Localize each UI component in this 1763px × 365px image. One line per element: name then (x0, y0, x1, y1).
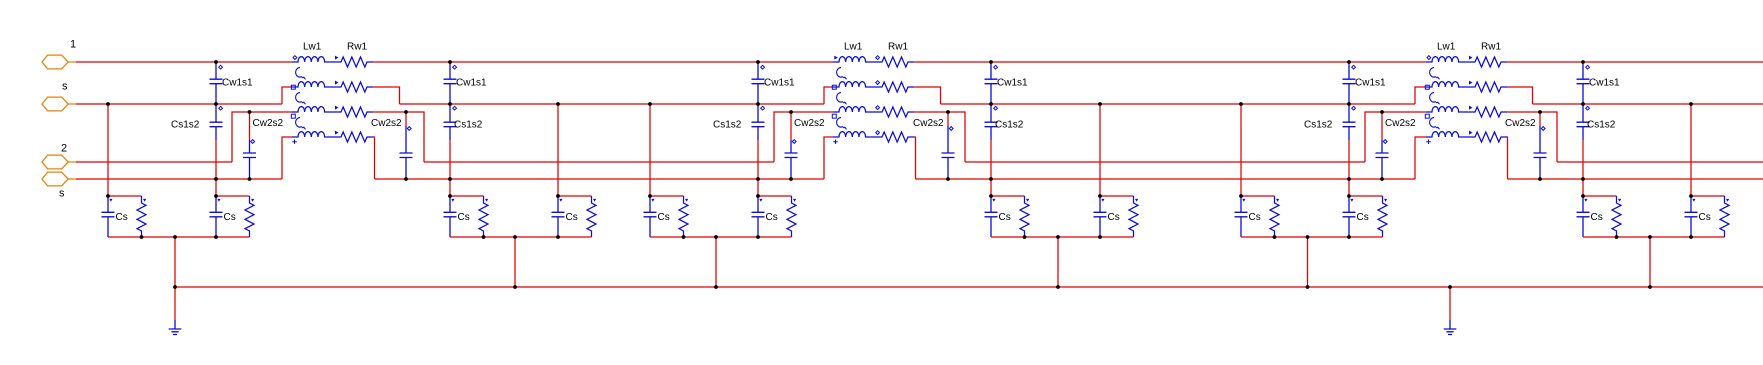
svg-text:Cw1s1: Cw1s1 (222, 78, 253, 89)
polarity marker row3 of block T3 (1425, 114, 1429, 118)
wire net 2 from block 3 to right edge (1557, 161, 1763, 163)
svg-text:Cs1s2: Cs1s2 (713, 120, 742, 131)
wire ground tap at x=1650 (1649, 237, 1651, 287)
shunt RC block Cs at x=1241 (1235, 196, 1280, 237)
shunt RC block Cs at x=450 (444, 196, 489, 237)
wire Cs bottom rail x=108-249.5 (108, 236, 250, 238)
coupling arc between rows 2 and 3 of block T2 (837, 93, 847, 105)
polarity marker row4 of block T3 (1426, 140, 1431, 145)
wire winding row4 right down to net s2, block 3 (1506, 137, 1509, 179)
svg-text:Cs: Cs (1249, 212, 1261, 223)
wire riser net s1 to winding row2 left, block 3 (1415, 87, 1426, 104)
port P1 (net 1) (42, 55, 76, 69)
capacitor Cs1s2 at x=758 (752, 104, 765, 140)
wire net s2 from port Ps2 to riser at block 1 (76, 178, 282, 180)
shunt RC block Cs at x=1100 (1094, 196, 1139, 237)
polarity marker row4 of block T1 (292, 140, 297, 145)
wire winding row2 right down to net s1, block 1 (373, 87, 400, 104)
svg-text:Rw1: Rw1 (347, 42, 367, 53)
ground symbol at x=175 (169, 287, 182, 335)
polarity marker row3 of block T1 (291, 114, 295, 118)
shunt RC block Cs at x=758 (752, 196, 797, 237)
capacitor Cw2s2 at x=948 (942, 112, 955, 179)
wire Cs1s2 bottom lead to net s2 at x=991 (990, 140, 992, 179)
wire riser net s1 to winding row2 left, block 2 (824, 87, 833, 104)
shunt RC block Cs at x=1349 (1343, 196, 1388, 237)
wire Cs bottom rail x=650-791.5 (650, 236, 792, 238)
wire net s1 down to Cs block at x=108 (107, 104, 109, 196)
svg-text:Cw1s1: Cw1s1 (764, 78, 795, 89)
winding Lw1+Rw1 row 2 of block T1 (292, 81, 373, 92)
wire Cs bottom rail x=1583-1724.5 (1583, 236, 1725, 238)
wire winding row2 right down to net s1, block 3 (1507, 87, 1533, 104)
wire winding row4 right down to net s2, block 2 (914, 137, 916, 179)
coupling arc between rows 3 and 4 of block T3 (1430, 118, 1440, 130)
shunt RC block Cs at x=216 (210, 196, 255, 237)
polarity marker row2 of block T2 (832, 85, 836, 89)
svg-text:1: 1 (70, 39, 76, 51)
junction dots on net s2 (214, 177, 1585, 181)
wire riser net s1 to winding row2 left, block 1 (282, 87, 292, 104)
svg-text:s: s (59, 188, 65, 200)
ground symbol at x=1450 (1444, 287, 1457, 335)
wire net s2 between blocks 1 and 2 (375, 178, 825, 180)
svg-text:Cs: Cs (1699, 212, 1711, 223)
polarity marker row3 of block T2 (832, 114, 836, 118)
svg-text:Cw2s2: Cw2s2 (1505, 118, 1536, 129)
capacitor Cs1s2 at x=450 (444, 104, 457, 140)
port Ps1 (net s1) (42, 97, 76, 111)
wire ground tap at x=175 (174, 237, 176, 287)
wire Cs1s2 bottom lead to net s2 at x=1349 (1348, 140, 1350, 179)
capacitor Cs1s2 at x=1349 (1343, 104, 1356, 140)
junction dots on Cs bottom rails (140, 235, 1693, 239)
svg-text:Cs1s2: Cs1s2 (995, 120, 1024, 131)
svg-text:Cs1s2: Cs1s2 (1304, 120, 1333, 131)
wire winding row3 right down to net 2, block 3 (1507, 112, 1557, 162)
wire riser net 2 to winding row3 left, block 1 (232, 112, 292, 162)
wire net s2 between blocks 2 and 3 (916, 178, 1416, 180)
capacitor Cs1s2 at x=1583 (1577, 104, 1590, 140)
capacitor Cs1s2 at x=991 (985, 104, 998, 140)
coupling arc between rows 2 and 3 of block T1 (296, 93, 306, 105)
wire net s1 down to Cs block at x=1241 (1240, 104, 1242, 196)
wire net 2 between blocks 2 and 3 (965, 161, 1365, 163)
shunt RC block Cs at x=991 (985, 196, 1030, 237)
junction dots on ground bus (173, 285, 1652, 289)
capacitor Cs1s2 at x=216 (210, 104, 223, 140)
wire Cs1s2 bottom lead to net s2 at x=450 (449, 140, 451, 179)
wire Cs1s2 bottom lead to net s2 at x=216 (215, 140, 217, 179)
wire Cs1s2 bottom lead to net s2 at x=1583 (1582, 140, 1584, 179)
wire net s2 down to Cs block at x=1583 (1582, 179, 1584, 196)
capacitor Cw1s1 at x=1349 (1343, 62, 1356, 104)
wire net 1 between block U1 and block U2 (373, 61, 833, 63)
winding Lw1+Rw1 row 4 of block T3 (1426, 131, 1507, 142)
svg-text:Cs1s2: Cs1s2 (171, 120, 200, 131)
svg-text:Cw1s1: Cw1s1 (1589, 78, 1620, 89)
winding Lw1+Rw1 row 4 of block T2 (833, 131, 914, 142)
wire net s1 down to Cs block at x=1691 (1690, 104, 1692, 196)
wire winding row4 right down to net s2, block 1 (373, 137, 375, 179)
svg-text:Cw2s2: Cw2s2 (371, 118, 402, 129)
junction dots on w2 stub wires (248, 110, 1542, 114)
wire riser net 2 to winding row3 left, block 2 (774, 112, 833, 162)
wire net 2 from port P2 to riser at block 1 (76, 161, 232, 163)
capacitor Cw1s1 at x=1583 (1577, 62, 1590, 104)
wire net s1 down to Cs block at x=650 (649, 104, 651, 196)
winding Lw1+Rw1 row 3 of block T2 (833, 106, 914, 117)
winding Lw1+Rw1 row 4 of block T1 (292, 131, 373, 142)
coupling arc between rows 1 and 2 of block T1 (296, 68, 306, 80)
wire net 1 from block U3 to right edge (1507, 61, 1763, 63)
coupling arc between rows 3 and 4 of block T1 (296, 118, 306, 130)
wire net s1 from block 3 to right edge (1533, 103, 1763, 105)
port Ps2 (net s2) (42, 172, 76, 186)
wire riser net s2 to winding row4 left, block 3 (1415, 137, 1426, 179)
wire Cs bottom rail x=1241-1382.5 (1241, 236, 1383, 238)
capacitor Cw2s2 at x=1540 (1534, 112, 1547, 179)
winding Lw1+Rw1 row 3 of block T3 (1426, 106, 1507, 117)
wire winding row3 right down to net 2, block 1 (373, 112, 424, 162)
shunt RC block Cs at x=650 (644, 196, 689, 237)
svg-text:Lw1: Lw1 (303, 42, 322, 53)
wire ground tap at x=716 (715, 237, 717, 287)
winding Lw1+Rw1 row 1 of block T3 (1426, 56, 1507, 67)
svg-text:Rw1: Rw1 (1481, 42, 1501, 53)
svg-text:Cs1s2: Cs1s2 (454, 120, 483, 131)
svg-text:Rw1: Rw1 (888, 42, 908, 53)
svg-text:Cs1s2: Cs1s2 (1587, 120, 1616, 131)
winding Lw1+Rw1 row 1 of block T2 (833, 56, 914, 67)
wire riser net 2 to winding row3 left, block 3 (1365, 112, 1426, 162)
capacitor Cw2s2 at x=406 (400, 112, 413, 179)
coupling arc between rows 1 and 2 of block T2 (837, 68, 847, 80)
wire ground tap at x=1058 (1057, 237, 1059, 287)
winding Lw1+Rw1 row 2 of block T2 (833, 81, 914, 92)
svg-text:2: 2 (61, 143, 67, 155)
wire net s1 between blocks 1 and 2 (400, 103, 825, 105)
capacitor Cw1s1 at x=758 (752, 62, 765, 104)
wire riser net s2 to winding row4 left, block 2 (824, 137, 833, 179)
svg-text:Cs: Cs (999, 212, 1011, 223)
capacitor Cw1s1 at x=991 (985, 62, 998, 104)
coupling arc between rows 3 and 4 of block T2 (837, 118, 847, 130)
wire net s1 down to Cs block at x=1100 (1099, 104, 1101, 196)
svg-text:Cs: Cs (458, 212, 470, 223)
wire net s2 down to Cs block at x=991 (990, 179, 992, 196)
junction dots on Cs block tops (106, 194, 1693, 198)
winding Lw1+Rw1 row 1 of block T1 (292, 56, 373, 67)
wire net s1 from port Ps1 to riser at block 1 (76, 103, 282, 105)
svg-text:Lw1: Lw1 (844, 42, 863, 53)
wire winding row2 right down to net s1, block 2 (914, 87, 941, 104)
coupling arc between rows 2 and 3 of block T3 (1430, 93, 1440, 105)
svg-text:Cw1s1: Cw1s1 (997, 78, 1028, 89)
svg-text:s: s (62, 81, 68, 93)
winding Lw1+Rw1 row 3 of block T1 (292, 106, 373, 117)
svg-text:Cs: Cs (658, 212, 670, 223)
wire net 1 between block U2 and block U3 (914, 61, 1426, 63)
capacitor Cw1s1 at x=216 (210, 62, 223, 104)
svg-text:Cs: Cs (1357, 212, 1369, 223)
wire winding row3 right down to net 2, block 2 (914, 112, 965, 162)
wire Cs bottom rail x=991-1133.5 (991, 236, 1134, 238)
coupling arc between rows 1 and 2 of block T3 (1430, 68, 1440, 80)
capacitor Cw2s2 at x=249.5 (243, 112, 256, 179)
wire net s2 down to Cs block at x=1349 (1348, 179, 1350, 196)
junction dots on net s1 (106, 102, 1693, 106)
wire net 2 between blocks 1 and 2 (424, 161, 774, 163)
wire net s2 down to Cs block at x=450 (449, 179, 451, 196)
capacitor Cw2s2 at x=791 (785, 112, 798, 179)
wire riser net s2 to winding row4 left, block 1 (282, 137, 292, 179)
svg-text:Cw2s2: Cw2s2 (1385, 118, 1416, 129)
polarity marker row2 of block T1 (291, 85, 295, 89)
wire net s1 down to Cs block at x=558 (557, 104, 559, 196)
svg-text:Cw2s2: Cw2s2 (794, 118, 825, 129)
svg-text:Cs: Cs (116, 212, 128, 223)
shunt RC block Cs at x=108 (102, 196, 147, 237)
svg-text:Cw2s2: Cw2s2 (253, 118, 284, 129)
svg-text:Cs: Cs (766, 212, 778, 223)
polarity marker row2 of block T3 (1425, 85, 1429, 89)
svg-text:Cs: Cs (1591, 212, 1603, 223)
wire ground tap at x=1307.5 (1307, 237, 1309, 287)
wire ground bus (175, 286, 1763, 288)
svg-text:Cw1s1: Cw1s1 (456, 78, 487, 89)
wire net s2 from block 3 to right edge (1508, 178, 1763, 180)
shunt RC block Cs at x=558 (552, 196, 597, 237)
winding Lw1+Rw1 row 2 of block T3 (1426, 81, 1507, 92)
wire Cs bottom rail x=450-591.5 (450, 236, 592, 238)
svg-text:Cs: Cs (566, 212, 578, 223)
port P2 (net 2) (42, 155, 76, 169)
svg-text:Cs: Cs (1108, 212, 1120, 223)
capacitor Cw2s2 at x=1382 (1376, 112, 1389, 179)
wire Cs1s2 bottom lead to net s2 at x=758 (757, 140, 759, 179)
svg-text:Cw1s1: Cw1s1 (1355, 78, 1386, 89)
shunt RC block Cs at x=1583 (1577, 196, 1622, 237)
polarity marker row4 of block T2 (833, 140, 838, 145)
shunt RC block Cs at x=1691 (1685, 196, 1730, 237)
wire ground tap at x=515 (514, 237, 516, 287)
wire net s2 down to Cs block at x=758 (757, 179, 759, 196)
capacitor Cw1s1 at x=450 (444, 62, 457, 104)
junction dots on net 1 (214, 60, 1585, 64)
wire net 1 from port P1 to block U1 (76, 61, 292, 63)
svg-text:Cw2s2: Cw2s2 (913, 118, 944, 129)
wire net s2 down to Cs block at x=216 (215, 179, 217, 196)
wire net s1 between blocks 2 and 3 (941, 103, 1416, 105)
svg-text:Lw1: Lw1 (1437, 42, 1456, 53)
svg-text:Cs: Cs (224, 212, 236, 223)
